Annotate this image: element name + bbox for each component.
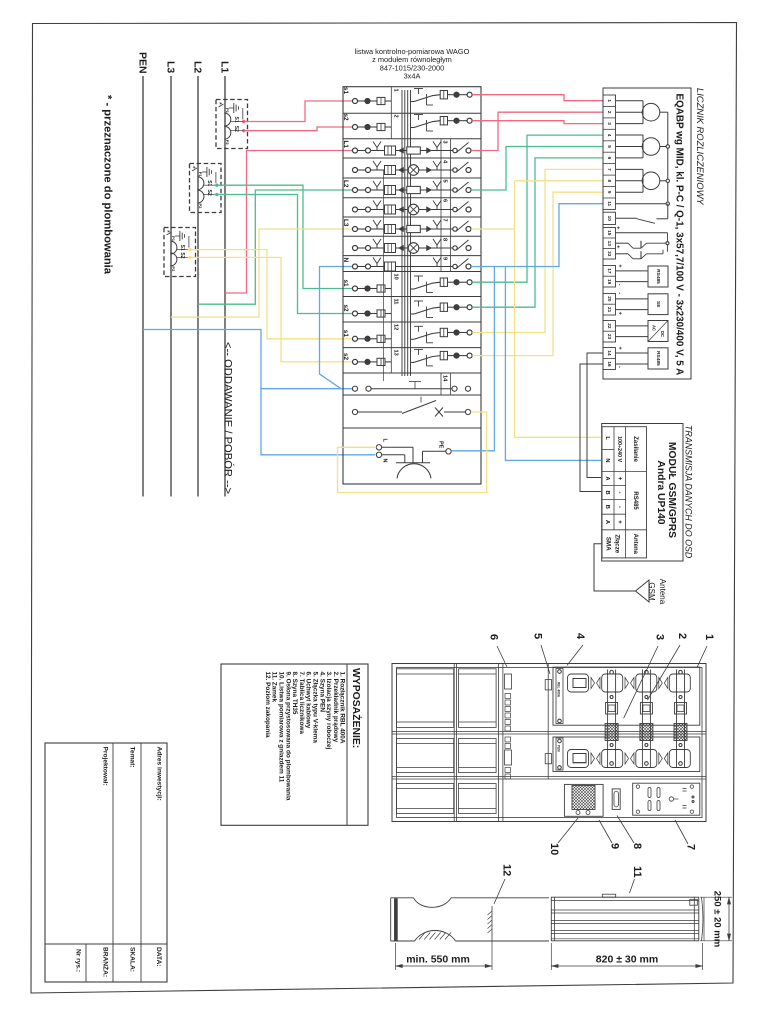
svg-text:RBL 400A: RBL 400A <box>556 682 560 698</box>
wire L3 bus <box>170 76 172 497</box>
svg-text:L1: L1 <box>219 61 231 73</box>
svg-text:19: 19 <box>607 279 612 285</box>
cabinet side view body <box>551 897 699 941</box>
svg-text:SE: SE <box>655 301 661 308</box>
wire CT3-S2 to strip row13 (yellow) <box>188 257 353 362</box>
svg-text:Adres inwestycji:: Adres inwestycji: <box>156 747 163 801</box>
svg-text:2: 2 <box>676 633 688 639</box>
wire L2 bus <box>197 76 199 497</box>
svg-text:2: 2 <box>607 111 612 114</box>
board meter panel compartment <box>564 784 603 816</box>
cabinet lock box <box>690 899 698 905</box>
svg-text:3x4A: 3x4A <box>404 72 421 81</box>
svg-text:11: 11 <box>393 299 399 305</box>
svg-text:+: + <box>617 312 623 315</box>
svg-text:5: 5 <box>607 145 612 148</box>
foundation post outline <box>390 898 392 941</box>
svg-text:4: 4 <box>574 633 586 640</box>
wire strip row11 to meter 6 (green) <box>472 158 602 307</box>
svg-text:S2: S2 <box>179 252 185 258</box>
svg-text:Temat:: Temat: <box>129 747 136 768</box>
svg-text:Projektował:: Projektował: <box>102 747 109 786</box>
meter RS485 port 1 <box>648 266 668 287</box>
svg-text:N: N <box>382 459 388 463</box>
meter AC/DC supply port <box>648 321 668 342</box>
svg-text:BRANŻA:: BRANŻA: <box>102 947 110 977</box>
wire strip row2 to meter 3 (red) <box>472 121 602 124</box>
meter terminal blocks <box>603 95 616 209</box>
svg-text:5: 5 <box>442 180 448 183</box>
title block frame <box>45 743 167 982</box>
svg-text:Złącze: Złącze <box>613 534 620 553</box>
terminal row 2 (s2, phase L1 current) <box>353 125 358 130</box>
svg-text:9: 9 <box>609 843 621 849</box>
wire PEN tap to strip row14 and socket N (blue) <box>143 330 353 389</box>
wire L3 voltage tap to strip row7 (yellow) <box>171 229 353 317</box>
wire PEN bus <box>142 76 144 497</box>
svg-text:S2: S2 <box>206 190 212 196</box>
GSM module terminal table <box>602 427 647 558</box>
svg-text:7: 7 <box>607 168 612 171</box>
svg-text:100÷240 V: 100÷240 V <box>616 436 622 462</box>
svg-text:MODUŁ GSM/GPRS: MODUŁ GSM/GPRS <box>666 442 677 538</box>
svg-text:EQABP wg MID, kl. P-C / Q-1, 3: EQABP wg MID, kl. P-C / Q-1, 3x57,7/100 … <box>674 94 685 376</box>
svg-text:*: * <box>215 102 222 105</box>
svg-text:2: 2 <box>393 115 399 118</box>
svg-text:LICZNIK ROZLICZENIOWY: LICZNIK ROZLICZENIOWY <box>695 88 706 205</box>
terminal row 5 (L2 voltage) <box>353 188 358 193</box>
svg-text:13: 13 <box>607 241 612 247</box>
svg-text:P1: P1 <box>198 172 203 178</box>
svg-text:RS485: RS485 <box>632 491 638 510</box>
wire strip row10 to meter 4 (green) <box>472 135 602 282</box>
transformer CT2 (L2) <box>190 164 222 213</box>
svg-text:3: 3 <box>607 122 612 125</box>
antenna symbol <box>636 580 650 602</box>
svg-text:6: 6 <box>607 157 612 160</box>
wire CT2-S2 to strip row11 (green) <box>214 195 353 314</box>
switch row (main contact) <box>352 409 357 414</box>
svg-text:TRANSMISJA DANYCH DO OSD: TRANSMISJA DANYCH DO OSD <box>683 425 693 559</box>
svg-text:B: B <box>604 491 610 495</box>
svg-text:*: * <box>189 166 196 169</box>
svg-text:8: 8 <box>631 843 643 849</box>
terminal row 8 <box>353 246 358 251</box>
svg-text:6: 6 <box>442 199 448 202</box>
svg-text:9: 9 <box>607 191 612 194</box>
meter SE port <box>648 294 668 315</box>
svg-text:250 ± 20 mm: 250 ± 20 mm <box>712 891 723 947</box>
svg-text:10: 10 <box>607 216 612 222</box>
board meter mounting plate <box>633 783 700 815</box>
svg-text:12. Poziom zakopania: 12. Poziom zakopania <box>264 672 271 739</box>
board rozlacznik section band 1 <box>553 667 700 725</box>
wire switch to socket L (yellow) <box>338 412 487 493</box>
board hinges <box>545 680 551 690</box>
svg-text:14: 14 <box>442 375 448 382</box>
meter terminal 11 link <box>616 203 667 205</box>
meter tariff contact (terminal 10) <box>616 217 638 219</box>
meter voltage coil 1 <box>642 103 660 121</box>
svg-text:11: 11 <box>631 866 643 878</box>
svg-text:s2: s2 <box>342 353 349 361</box>
terminal row 12 (s1, phase L3 current) <box>353 336 358 341</box>
svg-text:PEN: PEN <box>137 52 149 74</box>
wire meter 16 to module B (RS485) <box>580 364 603 492</box>
meter outer box <box>603 88 691 379</box>
svg-text:7: 7 <box>442 219 448 222</box>
wire CT2-S1 to strip row10 (green) <box>214 185 353 288</box>
svg-text:SKALA:: SKALA: <box>129 947 136 972</box>
svg-text:PEN: PEN <box>556 745 560 752</box>
svg-text:s1: s1 <box>342 280 349 288</box>
svg-text:+: + <box>615 245 621 248</box>
svg-text:10: 10 <box>393 274 399 280</box>
svg-text:RS485: RS485 <box>655 351 661 366</box>
svg-text:s2: s2 <box>342 114 349 122</box>
wire SMA to antenna <box>594 544 636 591</box>
svg-text:RS485: RS485 <box>655 269 661 284</box>
GSM module outer box <box>602 424 683 562</box>
svg-text:8: 8 <box>442 238 448 241</box>
svg-text:PE: PE <box>438 441 444 449</box>
svg-text:<-- ODDAWANIE / POBÓR -->: <-- ODDAWANIE / POBÓR --> <box>222 342 235 494</box>
board busbars with current transformers <box>607 670 609 769</box>
svg-text:P1: P1 <box>171 236 176 242</box>
svg-text:L: L <box>604 436 610 440</box>
dimension 250 ± 20 mm <box>700 896 732 898</box>
foundation post hatch <box>419 933 425 940</box>
wire CT1-S2 to strip row2 (red) <box>244 127 353 131</box>
svg-text:10: 10 <box>548 843 560 855</box>
meter pulse output transistors <box>616 232 668 234</box>
svg-text:Andra UP140: Andra UP140 <box>655 460 666 524</box>
wire meter 14 to module A (RS485) <box>587 353 603 478</box>
svg-text:7: 7 <box>685 844 697 850</box>
terminal row 14 (PEN link) <box>352 386 357 391</box>
svg-text:-: - <box>616 506 622 508</box>
wire N-row link to row14 (blue) <box>320 267 354 389</box>
wire L2 voltage tap to strip row5 (green) <box>198 190 353 304</box>
wire L1 bus <box>224 76 226 497</box>
svg-text:L3: L3 <box>342 219 349 227</box>
svg-text:13: 13 <box>393 350 399 356</box>
svg-text:+: + <box>616 477 622 481</box>
terminal strip link bar (left) <box>383 170 385 381</box>
svg-text:23: 23 <box>607 334 612 340</box>
svg-text:20: 20 <box>607 296 612 302</box>
transformer CT1 (L1) <box>216 100 248 149</box>
meter voltage coil 2 <box>642 138 660 156</box>
svg-text:33: 33 <box>607 251 612 257</box>
wire strip row3 L1 to meter 2 (red) <box>471 112 602 150</box>
wire CT1-S1 to strip row1 (red) <box>244 101 353 122</box>
svg-text:DATA:: DATA: <box>155 947 162 967</box>
svg-text:820 ± 30 mm: 820 ± 30 mm <box>596 954 658 966</box>
svg-text:14: 14 <box>607 350 612 356</box>
svg-text:21: 21 <box>607 307 612 313</box>
wire strip row7 L3 to meter 8 and module L (yellow) <box>471 228 514 230</box>
svg-text:+: + <box>615 226 621 229</box>
svg-text:12: 12 <box>393 324 399 330</box>
svg-text:Nr rys.:: Nr rys.: <box>75 949 82 972</box>
wire CT3-S1 to strip row12 (yellow) <box>188 250 353 339</box>
meter voltage coil 3 <box>642 172 660 190</box>
svg-text:N: N <box>342 258 349 263</box>
svg-text:B: B <box>604 505 610 509</box>
svg-text:-: - <box>617 366 623 368</box>
svg-text:Antena: Antena <box>658 579 667 605</box>
board front view outer frame <box>392 664 706 822</box>
svg-text:3: 3 <box>654 634 666 640</box>
wire strip row1 to meter 1 (red) <box>472 95 602 101</box>
terminal row 13 (s2, phase L3 current) <box>353 359 358 364</box>
svg-text:P2: P2 <box>171 266 176 272</box>
dimension 820 ± 30 mm <box>550 943 552 970</box>
meter RS485 port 2 <box>648 348 668 369</box>
board V-klema terminal column <box>505 674 512 689</box>
terminal row 11 (s2, phase L2 current) <box>353 311 358 316</box>
svg-text:+: + <box>617 264 623 267</box>
svg-text:L3: L3 <box>165 61 177 73</box>
svg-text:* - przeznaczone do plombowani: * - przeznaczone do plombowania <box>102 95 114 275</box>
svg-text:15: 15 <box>607 230 612 236</box>
svg-text:11: 11 <box>607 201 612 206</box>
wire strip row9 N to meter 11 (blue) <box>471 204 602 267</box>
terminal strip shorting bus bars <box>401 90 403 376</box>
terminal row 10 (s1, phase L2 current) <box>353 286 358 291</box>
svg-text:-: - <box>616 492 622 494</box>
terminal row 9 (N) <box>353 264 358 269</box>
svg-text:16: 16 <box>607 361 612 367</box>
meter voltage bus <box>667 112 669 204</box>
wire N to module N (blue) <box>505 267 601 461</box>
svg-text:1: 1 <box>703 634 715 640</box>
svg-text:P1: P1 <box>225 108 230 114</box>
wire L1 voltage tap to strip row3 (red) <box>225 151 353 294</box>
terminal strip number column lines <box>390 87 392 139</box>
svg-text:GSM: GSM <box>647 582 656 601</box>
socket symbol arc <box>396 462 430 464</box>
board rozlacznik section band 2 <box>553 737 700 772</box>
svg-text:P2: P2 <box>225 140 230 146</box>
svg-text:s1: s1 <box>342 87 349 95</box>
svg-text:WYPOSAŻENIE:: WYPOSAŻENIE: <box>350 668 363 748</box>
svg-text:DC: DC <box>660 331 665 337</box>
svg-text:Zasilanie: Zasilanie <box>632 436 638 462</box>
svg-text:Antena: Antena <box>632 534 638 555</box>
svg-text:+: + <box>616 520 622 524</box>
terminal row 3 (L1 voltage) <box>353 148 358 153</box>
svg-text:L2: L2 <box>192 61 204 73</box>
svg-text:S1: S1 <box>206 180 212 186</box>
svg-text:+: + <box>617 347 623 350</box>
terminal row 1 (s1, phase L1 current) <box>353 99 358 104</box>
svg-text:L2: L2 <box>342 180 349 188</box>
wire strip row13 to meter 9 (yellow) <box>472 192 602 355</box>
terminal row 7 (L3 voltage) <box>353 227 358 232</box>
svg-text:S2: S2 <box>233 126 239 132</box>
terminal row 4 <box>353 168 358 173</box>
svg-text:1: 1 <box>393 89 399 92</box>
svg-text:3: 3 <box>442 141 448 144</box>
burial level mark <box>491 906 493 941</box>
board cable gland <box>612 789 620 810</box>
svg-text:22: 22 <box>607 323 612 329</box>
wire PE to N (blue) <box>451 267 494 451</box>
board measuring strip (listwa) <box>572 786 595 810</box>
meter current links phase 2 <box>616 134 644 136</box>
terminal row 6 <box>353 207 358 212</box>
svg-text:17: 17 <box>607 268 612 274</box>
svg-text:N: N <box>604 458 610 462</box>
svg-text:*: * <box>163 230 170 233</box>
svg-text:6: 6 <box>488 634 500 640</box>
svg-text:S1: S1 <box>233 117 239 123</box>
board left door panels <box>397 669 454 728</box>
board band separators <box>392 731 706 733</box>
socket terminal PE <box>446 449 451 454</box>
svg-text:-: - <box>617 292 623 294</box>
svg-text:s1: s1 <box>342 330 349 338</box>
svg-text:-: - <box>617 284 623 286</box>
meter current links phase 3 <box>616 168 644 170</box>
svg-text:P2: P2 <box>198 204 203 210</box>
wire strip row5 L2 to meter 5 (green) <box>471 147 602 191</box>
meter current links phase 1 <box>616 100 644 102</box>
svg-text:9: 9 <box>442 257 448 260</box>
dimension min. 550 mm <box>395 943 397 970</box>
svg-text:min. 550 mm: min. 550 mm <box>406 954 470 966</box>
cabinet roof edge <box>702 897 704 941</box>
svg-text:4: 4 <box>607 134 612 137</box>
svg-text:AC: AC <box>652 325 657 331</box>
equipment list box <box>221 664 368 825</box>
wire strip row12 to meter 7 (yellow) <box>472 169 602 332</box>
svg-text:1: 1 <box>607 99 612 102</box>
svg-text:s2: s2 <box>342 305 349 313</box>
transformer CT3 (L3) <box>164 228 196 277</box>
board fuse switch modules <box>568 674 589 692</box>
cabinet top tab <box>602 894 615 897</box>
svg-text:L1: L1 <box>342 141 349 149</box>
socket terminal L <box>376 445 381 450</box>
svg-text:12: 12 <box>501 864 513 876</box>
board vertical rails <box>453 664 455 822</box>
terminal strip outer box <box>343 87 481 484</box>
terminal strip row separators <box>343 112 481 114</box>
socket terminal N <box>376 452 381 457</box>
svg-text:SMA: SMA <box>605 537 612 551</box>
svg-text:5: 5 <box>532 633 544 639</box>
svg-text:8: 8 <box>607 179 612 182</box>
svg-text:S1: S1 <box>179 245 185 251</box>
